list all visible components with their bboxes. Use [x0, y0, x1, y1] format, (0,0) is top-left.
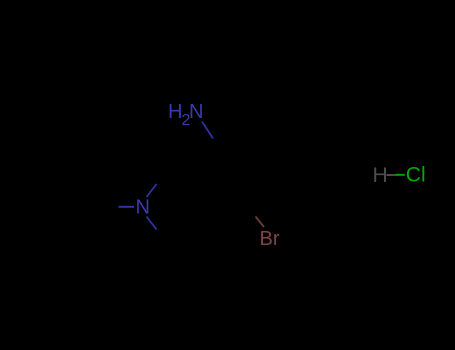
svg-text:H: H — [373, 164, 388, 187]
svg-text:N: N — [189, 101, 203, 123]
svg-text:H: H — [168, 101, 182, 123]
svg-text:Cl: Cl — [406, 164, 426, 187]
svg-text:N: N — [136, 197, 150, 219]
svg-text:Br: Br — [260, 228, 280, 250]
